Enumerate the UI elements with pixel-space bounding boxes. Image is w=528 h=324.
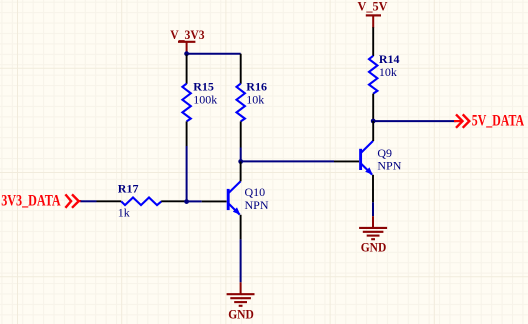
wire from R16 bottom to node B — [240, 148, 242, 162]
wire from node A to R16 top — [187, 53, 241, 55]
svg-text:R14: R14 — [379, 52, 400, 66]
svg-text:NPN: NPN — [245, 198, 269, 212]
port 3V3_DATA — [1, 192, 81, 209]
node C junction dot — [184, 199, 189, 204]
transistor Q9 — [334, 121, 402, 202]
transistor Q10 — [202, 162, 269, 240]
resistor R14 — [369, 27, 400, 121]
svg-text:GND: GND — [228, 307, 254, 321]
svg-text:R16: R16 — [246, 80, 267, 94]
wire from node D to port 5V_DATA — [373, 120, 456, 122]
svg-text:R15: R15 — [193, 80, 214, 94]
wire from Q9 emitter to GND — [372, 202, 374, 216]
wire from node C to Q10 base — [187, 200, 202, 202]
svg-text:1k: 1k — [118, 205, 130, 219]
node A junction dot — [184, 51, 189, 56]
wire from port 3V3_DATA to R17 — [81, 200, 97, 202]
svg-text:3V3_DATA: 3V3_DATA — [1, 192, 61, 209]
power port V_5V — [358, 0, 388, 28]
port 5V_DATA — [454, 112, 525, 129]
svg-text:10k: 10k — [246, 93, 264, 107]
svg-text:V_3V3: V_3V3 — [170, 28, 204, 42]
svg-text:NPN: NPN — [377, 159, 401, 173]
ground GND (Q9) — [359, 216, 387, 254]
svg-text:GND: GND — [361, 241, 387, 255]
svg-text:5V_DATA: 5V_DATA — [472, 112, 525, 129]
wire from R15 bottom to node C — [186, 146, 188, 202]
svg-text:V_5V: V_5V — [358, 0, 388, 14]
power port V_3V3 — [170, 28, 204, 53]
resistor R17 — [97, 182, 187, 220]
wire from node B to Q9 base — [241, 160, 334, 162]
wire from Q10 emitter to GND — [240, 239, 242, 282]
svg-text:10k: 10k — [379, 65, 397, 79]
svg-text:R17: R17 — [118, 182, 139, 196]
svg-text:Q10: Q10 — [245, 185, 266, 199]
node D junction dot — [371, 119, 376, 124]
resistor R15 — [182, 55, 217, 147]
ground GND (Q10) — [227, 282, 255, 321]
node B junction dot — [238, 159, 243, 164]
resistor R16 — [237, 54, 267, 148]
svg-text:100k: 100k — [193, 93, 217, 107]
